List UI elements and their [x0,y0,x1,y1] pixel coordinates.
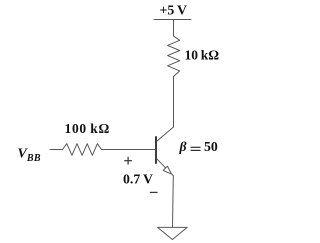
resistor R2 100 kOhm (horizontal zigzag) [63,144,102,156]
ground symbol [158,227,188,239]
svg-text:50: 50 [204,139,218,154]
svg-text:100 kΩ: 100 kΩ [65,121,110,136]
wire: emitter to ground [172,176,175,228]
svg-text:+5 V: +5 V [160,2,188,17]
resistor R1 10 kOhm (vertical zigzag) [168,36,180,77]
wire: resistor R2 to base [102,149,156,151]
wire: VBB stub to resistor R2 [50,149,63,151]
wire: resistor R1 bottom to collector [173,77,175,128]
svg-text:0.7 V: 0.7 V [123,172,153,187]
label plus sign [124,157,132,165]
transistor Q1 base bar [155,137,157,163]
svg-text:β: β [179,139,187,154]
label minus sign [150,191,158,193]
transistor Q1 emitter arrowhead [163,166,171,174]
transistor Q1 emitter lead [157,159,174,176]
transistor Q1 collector lead [157,127,174,141]
svg-text:10 kΩ: 10 kΩ [185,48,220,63]
wire: rail to resistor R1 top [173,20,175,37]
equals sign of beta = 50 [191,146,201,148]
power rail +5V bar [154,19,191,21]
